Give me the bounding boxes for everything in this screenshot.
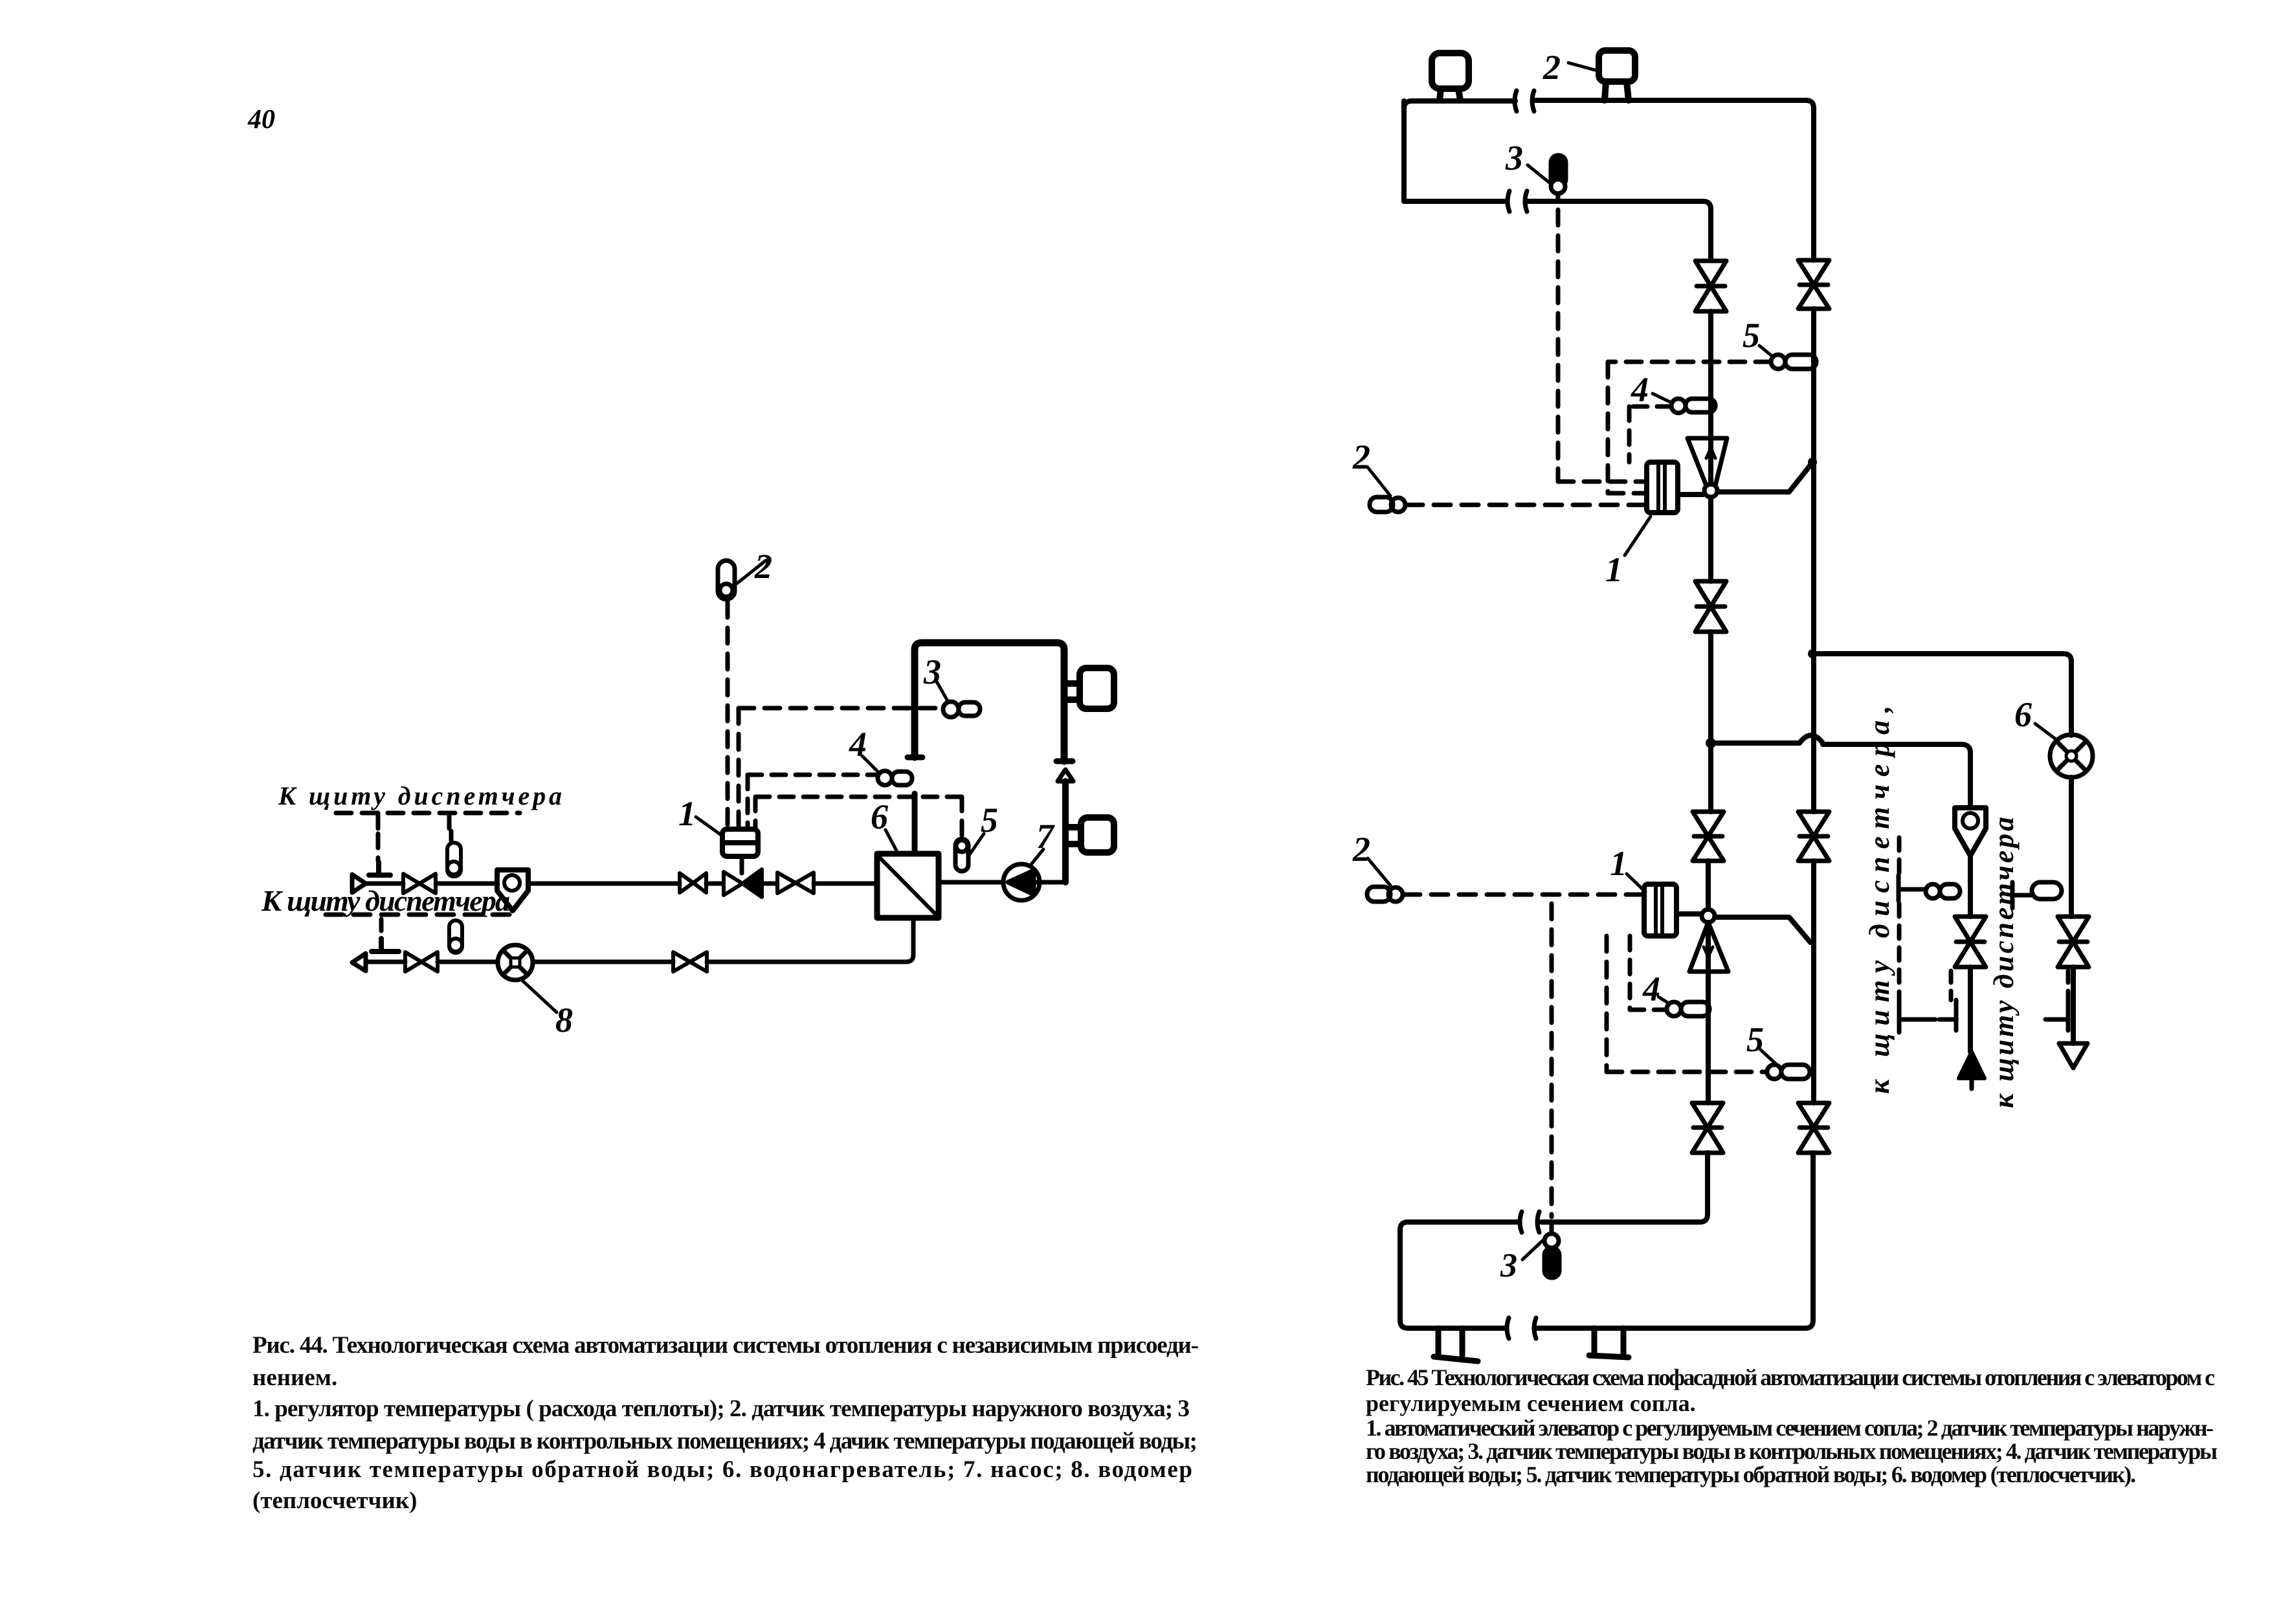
svg-text:регулируемым сечением сопла.: регулируемым сечением сопла. [1366, 1390, 1696, 1416]
strainer on supply branch [1955, 808, 1986, 856]
water meter 8 (heat meter) [498, 945, 533, 980]
svg-text:1. автоматический элеватор с р: 1. автоматический элеватор с регулируемы… [1366, 1415, 2214, 1441]
svg-text:7: 7 [1036, 817, 1055, 856]
node dispatcher terminal 2 [1939, 1000, 1956, 1030]
node mixing chamber circle (lower) [1702, 909, 1715, 922]
node break ticks bottom line [1507, 1318, 1536, 1339]
valve pair mid (right riser) [1798, 812, 1829, 861]
node end arrow open (meter line) [2059, 1043, 2088, 1068]
svg-text:1: 1 [1610, 844, 1627, 883]
wire left riser to lower elevator [1706, 861, 1711, 909]
wire dashed to dispatcher (lower) [326, 913, 511, 917]
svg-text:нением.: нением. [252, 1364, 337, 1391]
node break ticks second line [1508, 191, 1527, 212]
svg-text:подающей воды; 5. датчик темпе: подающей воды; 5. датчик температуры обр… [1366, 1462, 2136, 1487]
heater stub pair right [1589, 1328, 1629, 1357]
node flow arrow up on riser [1058, 770, 1073, 781]
svg-text:1: 1 [678, 794, 696, 833]
wire supply branch lower [1968, 967, 1973, 1052]
wire dashed dispatcher drop 1 [1897, 838, 1902, 996]
svg-text:(теплосчетчик): (теплосчетчик) [252, 1487, 417, 1514]
valve on return (right gate) [673, 952, 707, 972]
heater box top-right (sensor room) [1599, 50, 1635, 100]
svg-text:2: 2 [1352, 830, 1370, 869]
wire dashed thermometer 2 to elevator [1406, 503, 1645, 507]
node end arrow filled (supply branch) [1959, 1052, 1985, 1078]
svg-text:1. регулятор температуры ( рас: 1. регулятор температуры ( расхода тепло… [252, 1396, 1190, 1422]
wire dashed dispatcher drop 2 [1949, 971, 1954, 1000]
node break end bar [1056, 759, 1073, 764]
wire dashed drop to supply [376, 834, 381, 861]
wire dashed from thermometer 4 to elevator [1629, 406, 1671, 462]
wire left loop riser [915, 643, 1064, 761]
thermometer 5 (upper, return sensor) [1771, 355, 1816, 369]
svg-text:К щиту диспетчера: К щиту диспетчера [261, 884, 510, 917]
thermometer 3 (upper, room sensor) [1551, 155, 1566, 201]
node pipe break with T-bar [908, 755, 922, 761]
wire dashed from thermometer 2 to regulator [726, 602, 730, 829]
thermometer 3 (room air sensor) [943, 702, 980, 717]
heater box (bottom radiator) [1065, 818, 1114, 852]
valve on right riser (upper) [1798, 260, 1829, 309]
valve lower (left riser) [1692, 1103, 1723, 1153]
wire supply branch mid [1968, 856, 1973, 917]
wire supply header with hop over return riser [1716, 735, 1970, 808]
wire meter line lower [2071, 967, 2076, 1043]
wire HE top riser [912, 794, 918, 854]
thermometer 2 (outdoor air sensor) [718, 561, 735, 599]
wire dashed to thermometer 5 (lower) [1607, 936, 1766, 1072]
thermometer 2 (upper outdoor) [1370, 497, 1405, 512]
control valve (regulating, right disc filled) [724, 872, 742, 895]
wire dashed dispatcher drop 3 [2066, 971, 2071, 999]
svg-text:4: 4 [1642, 970, 1660, 1008]
thermometer 3 (lower, hanging) [1544, 1222, 1559, 1278]
wire dashed thermometer 3 drop (lower) [1550, 904, 1554, 1217]
svg-text:к щиту диспетчера,: к щиту диспетчера, [1864, 706, 1895, 1094]
svg-text:5: 5 [1746, 1020, 1764, 1059]
pump 7 [1003, 864, 1040, 900]
node dispatcher terminal 1 [1899, 997, 1935, 1032]
valve below mixing (left riser) [1695, 581, 1726, 632]
thermometer on supply branch [1899, 875, 1960, 901]
valve lower (right riser) [1798, 1103, 1829, 1153]
wire upper loop top line (left part) [1404, 101, 1515, 109]
node return outlet arrow [352, 953, 366, 971]
wire upper loop top line (right part) [1533, 100, 1814, 260]
elevator cone (upper) [1687, 438, 1727, 485]
svg-text:Рис. 44. Технологическая схема: Рис. 44. Технологическая схема автоматиз… [252, 1332, 1199, 1359]
wire upper loop second line right part [1526, 201, 1711, 260]
svg-text:5: 5 [1743, 316, 1760, 355]
heat exchanger 6 [877, 854, 939, 918]
svg-text:4: 4 [1631, 370, 1649, 409]
svg-text:6: 6 [2014, 695, 2032, 734]
regulator 1 (temperature/heat controller) [722, 829, 758, 856]
valve pair mid (left riser) [1693, 812, 1724, 861]
heater stub pair left [1434, 1328, 1478, 1361]
thermometer 5 (lower return sensor) [1767, 1065, 1810, 1079]
node junction dot on right riser [1808, 458, 1817, 467]
wire right riser long [1811, 309, 1816, 812]
wire dashed from thermometer 5 to elevator [1608, 362, 1771, 493]
water meter 6 [2050, 735, 2093, 777]
wire return pipe [366, 918, 913, 962]
svg-text:К щиту диспетчера: К щиту диспетчера [278, 781, 562, 810]
node mixing chamber circle [1704, 484, 1717, 497]
svg-text:1: 1 [1605, 550, 1623, 589]
valve on supply branch [1955, 917, 1986, 967]
wire dashed stub to supply thermometer [449, 831, 454, 841]
wire regulator stem [740, 856, 744, 873]
wire right riser to lower junction [1811, 861, 1816, 1103]
valve on left riser (upper) [1695, 261, 1726, 311]
elevator 1 (lower) [1644, 884, 1701, 936]
thermometer 4 (supply water sensor) [878, 771, 912, 785]
valve on return (left gate) [405, 952, 438, 972]
node T-bar on return [372, 939, 399, 951]
wire dashed from thermometer 3 to regulator [739, 708, 941, 829]
strainer (dirt trap) [497, 870, 528, 911]
node T-bar on supply [369, 862, 390, 875]
wire dashed to dispatcher (upper) [336, 811, 520, 816]
wire left riser into loop [1541, 1153, 1708, 1222]
svg-text:2: 2 [1542, 48, 1561, 87]
wire right riser to pump line [1062, 781, 1069, 882]
wire dashed from thermometer 5 to regulator [755, 797, 962, 836]
svg-text:го воздуха; 3. датчик температ: го воздуха; 3. датчик температуры воды в… [1366, 1438, 2218, 1464]
svg-text:2: 2 [1352, 438, 1370, 476]
wire lower loop bottom line right part [1535, 1153, 1813, 1328]
valve on supply (left gate) [403, 874, 436, 893]
node supply inlet arrow [352, 874, 366, 893]
wire left riser below mixing [1708, 497, 1713, 581]
wire return header to water meter [1817, 654, 2071, 735]
thermometer 2 (lower outdoor) [1367, 887, 1403, 902]
thermometer on return line [449, 920, 462, 953]
thermometer on supply line [447, 843, 461, 876]
thermometer 4 (upper, supply sensor) [1671, 399, 1715, 413]
wire left riser to elevator cone [1708, 311, 1713, 484]
wire mixing outlet to right riser [1717, 463, 1812, 492]
svg-text:5. датчик температуры об: 5. датчик температуры обратной воды; 6. … [252, 1456, 1192, 1483]
node dispatcher terminal 3 [2045, 1000, 2068, 1030]
wire dashed from thermometer 3 down to elevator [1558, 210, 1645, 482]
wire lower loop top line left [1400, 1222, 1519, 1328]
wire dashed to thermometer 4 (lower) [1630, 936, 1665, 1010]
wire upper loop left drop [1401, 101, 1407, 201]
wire left riser to mid junction [1708, 632, 1713, 812]
node mid junction dot (return riser) [1808, 649, 1817, 658]
svg-text:3: 3 [1505, 139, 1523, 177]
svg-text:8: 8 [555, 1001, 573, 1040]
wire upper loop second line [1404, 199, 1507, 204]
svg-text:40: 40 [247, 105, 275, 135]
heater box (top radiator) [1064, 668, 1114, 709]
wire HE outlet to pump [939, 880, 1003, 885]
elevator 1 (upper, adjustable nozzle) [1647, 462, 1703, 513]
wire supply pipe [365, 882, 877, 886]
node tick T2 [447, 813, 452, 829]
thermometer 4 (lower supply sensor) [1667, 1002, 1709, 1016]
node tick T1 [376, 813, 381, 829]
heater box top-left [1432, 53, 1469, 100]
svg-text:датчик температуры воды в к: датчик температуры воды в контрольных по… [252, 1428, 1197, 1454]
valve on meter line [2058, 917, 2089, 967]
thermometer on meter line [2012, 882, 2062, 908]
wire pump to riser [1040, 880, 1065, 885]
valve on supply (third gate) [777, 873, 814, 893]
wire dashed from thermometer 4 to regulator [748, 775, 875, 829]
wire dashed drop to return [379, 919, 384, 937]
svg-text:3: 3 [1500, 1247, 1517, 1284]
thermometer 5 (return water sensor) [955, 839, 968, 871]
wire mixing outlet to right riser (lower) [1715, 917, 1810, 942]
wire meter line down [2069, 777, 2074, 917]
svg-text:к щиту диспетчера: к щиту диспетчера [1988, 817, 2020, 1108]
elevator cone (lower) [1689, 922, 1728, 972]
node mid junction dot (supply) [1706, 738, 1716, 748]
valve on supply (second gate) [680, 873, 706, 893]
node break ticks top line [1515, 91, 1534, 111]
wire dashed thermometer 2 to elevator (lower) [1403, 893, 1643, 897]
node break ticks lower top line [1520, 1212, 1539, 1232]
svg-text:Рис. 45 Технологическая схема: Рис. 45 Технологическая схема пофасадной… [1366, 1364, 2215, 1390]
wire left riser below cone [1706, 922, 1711, 1103]
